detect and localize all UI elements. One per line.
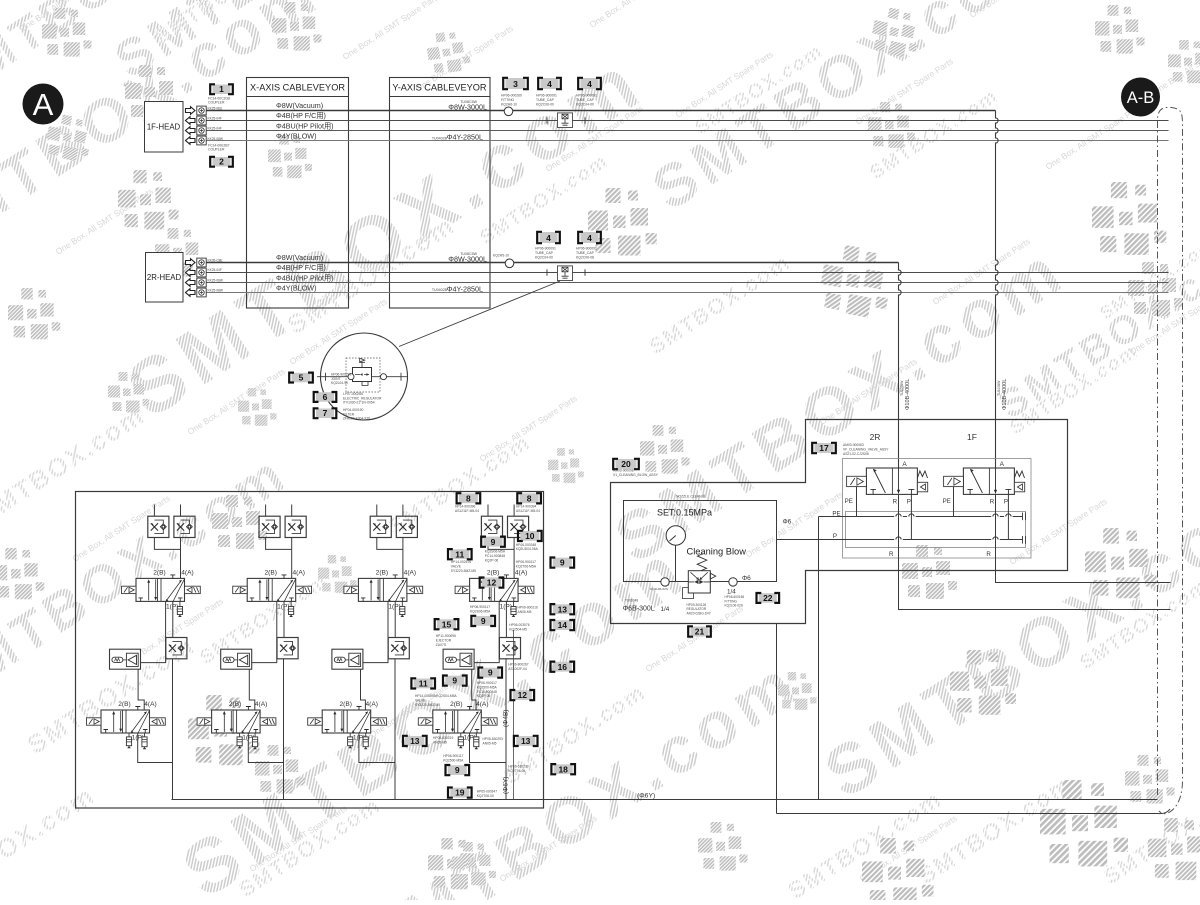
group 1 P line down <box>172 601 174 637</box>
svg-text:18: 18 <box>558 764 568 774</box>
svg-text:KK05-C8E: KK05-C8E <box>208 258 223 262</box>
svg-text:KK25-04F: KK25-04F <box>208 116 222 120</box>
svg-text:Φ8W-3000L: Φ8W-3000L <box>448 254 487 263</box>
svg-text:HP06-900117: HP06-900117 <box>477 681 497 685</box>
svg-text:KQ2H6-10: KQ2H6-10 <box>501 103 517 107</box>
svg-text:HP06-000348: HP06-000348 <box>516 543 537 547</box>
detail pointer line <box>399 281 560 347</box>
svg-text:4(A): 4(A) <box>476 701 488 708</box>
svg-text:HP11-900096: HP11-900096 <box>436 634 456 638</box>
tag [9] <box>478 668 502 678</box>
svg-text:14: 14 <box>558 620 568 630</box>
group 3 lower outlet wire <box>359 733 395 763</box>
flow control FC4b <box>508 516 529 537</box>
svg-text:1(P): 1(P) <box>277 603 289 610</box>
wire vertical 1F drop phi10B-4000L <box>996 111 999 469</box>
svg-text:KQ2500-M5A: KQ2500-M5A <box>477 685 498 689</box>
svg-text:Φ10B-4000L: Φ10B-4000L <box>1002 379 1008 410</box>
svg-text:Φ8W-3000L: Φ8W-3000L <box>448 102 487 111</box>
svg-text:KK25-0EE: KK25-0EE <box>208 106 223 110</box>
svg-text:KQ2C04-00: KQ2C04-00 <box>576 103 594 107</box>
svg-text:Φ8W(Vacuum): Φ8W(Vacuum) <box>276 253 323 262</box>
svg-text:KQ2S06-M5A: KQ2S06-M5A <box>470 609 491 613</box>
wire P drop 2R <box>910 494 912 539</box>
svg-text:Cleaning Blow: Cleaning Blow <box>687 547 747 557</box>
wire 1F phi4BU line <box>206 130 1169 132</box>
group 4 upper muffler <box>513 601 515 606</box>
valve upper V1 <box>122 575 201 602</box>
flow control FC3a <box>370 516 391 537</box>
group 1 FC to valve wires <box>154 538 180 579</box>
svg-text:KQ2500-M5A: KQ2500-M5A <box>443 758 464 762</box>
label phi10B-4000L left <box>900 379 911 410</box>
group 2 ejector outlet wire <box>249 669 255 710</box>
detail bubble circle <box>321 333 408 420</box>
wire phi6Y bottom <box>544 799 1158 801</box>
manifold bottom bus <box>172 799 544 801</box>
flow control FC2a <box>259 516 280 537</box>
fitting circle on 1F vacuum line <box>504 107 513 116</box>
tag [18] <box>551 764 575 774</box>
svg-text:4(A): 4(A) <box>292 570 304 577</box>
svg-text:16: 16 <box>558 662 568 672</box>
wire PE drop 2R <box>856 487 858 517</box>
svg-text:KQ2504-M5: KQ2504-M5 <box>509 627 527 631</box>
coupler labels 1F <box>208 97 230 105</box>
svg-text:SY3220-5MZ-M5: SY3220-5MZ-M5 <box>451 569 476 573</box>
svg-text:R: R <box>986 551 991 558</box>
group 3 P line down <box>394 601 396 637</box>
svg-text:HP06-630230: HP06-630230 <box>508 765 529 769</box>
fitting circle right <box>729 578 737 586</box>
svg-text:P: P <box>907 499 911 506</box>
wire 1F phi4Y line <box>206 140 1169 142</box>
svg-text:HP14-900396: HP14-900396 <box>455 505 476 509</box>
group 3 FC stems <box>377 505 403 517</box>
group 3 lower mufflers <box>349 733 351 737</box>
group 4 FC stems <box>488 505 514 517</box>
svg-text:HP06-900091: HP06-900091 <box>576 94 597 98</box>
svg-text:KQ2P-06: KQ2P-06 <box>477 694 491 698</box>
tag [1] <box>210 84 233 94</box>
svg-text:FC14-900848: FC14-900848 <box>477 690 497 694</box>
svg-text:2R: 2R <box>870 432 881 442</box>
svg-text:P: P <box>833 533 837 540</box>
group 1 upper muffler <box>179 601 181 606</box>
svg-text:HP65-000347: HP65-000347 <box>477 790 498 794</box>
flow control FC2b <box>285 516 306 537</box>
group 2 lower outlet wire <box>248 733 283 763</box>
tag [12] <box>511 690 535 700</box>
svg-text:AR20-02BG-1RY: AR20-02BG-1RY <box>687 611 712 615</box>
group 4 vacuum jog wire <box>474 601 499 662</box>
tag [11] <box>448 549 472 559</box>
PE bus wire <box>819 516 1024 518</box>
svg-text:HP06-900091: HP06-900091 <box>576 247 597 251</box>
label phi6Y rotated <box>503 777 510 794</box>
wire 1F R outlet to A-B <box>996 558 1171 583</box>
svg-text:KK25-04F: KK25-04F <box>208 127 222 131</box>
cleaning valve assembly outer box <box>611 420 1068 624</box>
svg-text:2(B): 2(B) <box>339 701 351 708</box>
svg-text:HP05-630293: HP05-630293 <box>483 737 504 741</box>
svg-text:2(B): 2(B) <box>229 701 241 708</box>
svg-text:1(P): 1(P) <box>166 603 178 610</box>
svg-text:4(A): 4(A) <box>365 701 377 708</box>
tag [14] <box>551 620 575 630</box>
tube cap on 1F phi4B line <box>547 117 585 123</box>
svg-text:4: 4 <box>587 79 592 89</box>
wire PE drop 1F <box>953 487 955 517</box>
svg-text:9: 9 <box>488 668 493 678</box>
wire vertical 2R drop phi10B-4000L <box>899 263 902 469</box>
ejector EJ3 <box>332 649 363 669</box>
flow control FC1b <box>174 516 195 537</box>
2R fitting circle and label <box>493 254 509 258</box>
svg-text:ZU07S: ZU07S <box>436 643 447 647</box>
valve upper V2 <box>233 575 312 602</box>
group 1 lower mufflers <box>128 733 130 737</box>
group 1 ejector outlet wire <box>138 669 144 710</box>
svg-text:1F-HEAD: 1F-HEAD <box>147 123 181 132</box>
svg-text:2R-HEAD: 2R-HEAD <box>147 273 182 282</box>
svg-text:TUBE_CAP: TUBE_CAP <box>576 251 595 255</box>
svg-text:TU06048: TU06048 <box>625 599 638 603</box>
svg-text:AS21-02-CJ2S06: AS21-02-CJ2S06 <box>843 452 869 456</box>
wire bottom second line <box>777 809 1171 814</box>
svg-text:Φ4B(HP F/C用): Φ4B(HP F/C用) <box>276 263 326 272</box>
svg-text:4: 4 <box>547 79 552 89</box>
svg-text:1/4: 1/4 <box>661 606 670 613</box>
svg-text:P: P <box>1004 499 1008 506</box>
tag [4] <box>578 78 601 89</box>
svg-text:AS1002F-04: AS1002F-04 <box>508 667 527 671</box>
svg-text:12: 12 <box>487 578 497 588</box>
group 2 FC to valve wires <box>266 538 292 579</box>
nozzle clean inner box <box>624 501 777 582</box>
svg-text:FITTING: FITTING <box>501 98 515 102</box>
svg-text:AS1211F-M5-04: AS1211F-M5-04 <box>455 509 479 513</box>
tag [8] <box>457 493 481 503</box>
svg-text:12: 12 <box>518 690 528 700</box>
wire 1F vacuum line phi8W <box>206 110 996 112</box>
tag [9] <box>443 676 467 686</box>
svg-text:11: 11 <box>419 679 428 689</box>
valve manifold outer box <box>76 492 544 809</box>
tube cap on 2R phi4B line <box>547 269 585 275</box>
valve lower VL2 <box>197 707 276 734</box>
2R tube labels Y box <box>460 252 477 256</box>
svg-text:15: 15 <box>442 619 452 629</box>
group 2 P line to bus <box>283 659 285 800</box>
group 3 ejector outlet wire <box>361 669 366 710</box>
1F head connectors <box>186 106 207 115</box>
svg-text:22: 22 <box>763 593 773 603</box>
svg-text:VALVE: VALVE <box>451 564 462 568</box>
wire 2R phi4BU line <box>206 282 1169 284</box>
svg-text:TU0402B: TU0402B <box>432 136 448 140</box>
group 2 upper muffler <box>290 601 292 606</box>
svg-text:HP06-800267: HP06-800267 <box>508 663 529 667</box>
flow control FC3b <box>396 516 417 537</box>
svg-text:9: 9 <box>452 676 457 686</box>
svg-text:TUBE_CAP: TUBE_CAP <box>535 251 554 255</box>
svg-text:Φ4Y(BLOW): Φ4Y(BLOW) <box>276 132 316 141</box>
group 2 vacuum jog wire <box>252 601 277 662</box>
group 4 P line to bus <box>505 659 507 800</box>
svg-text:1: 1 <box>219 84 224 94</box>
svg-text:HP06-900091: HP06-900091 <box>535 247 556 251</box>
tag [22] <box>757 593 780 603</box>
wire P drop 1F <box>1007 494 1009 539</box>
svg-text:PE: PE <box>845 498 853 505</box>
svg-text:COUPLER: COUPLER <box>208 148 225 152</box>
ejector EJ2 <box>221 649 252 669</box>
svg-text:PC14-900848: PC14-900848 <box>485 554 506 558</box>
group 4 P line down <box>505 601 507 637</box>
svg-text:TUBE_CAP: TUBE_CAP <box>576 98 595 102</box>
tag [2] <box>210 157 233 167</box>
svg-text:2(B): 2(B) <box>153 570 165 577</box>
svg-text:EJECTOR: EJECTOR <box>436 638 452 642</box>
svg-text:NOZZLE CLEAN用: NOZZLE CLEAN用 <box>676 495 705 499</box>
svg-text:HP06-900117: HP06-900117 <box>443 754 463 758</box>
svg-text:TU0402B: TU0402B <box>432 288 448 292</box>
A-B cable loop dash-dot <box>1158 107 1183 813</box>
tag [13] <box>514 736 538 746</box>
svg-text:1F: 1F <box>967 432 977 442</box>
svg-text:8: 8 <box>466 493 471 503</box>
svg-text:R: R <box>889 551 894 558</box>
svg-text:AM03-000098: AM03-000098 <box>613 469 634 473</box>
wire R drop 1F <box>995 494 997 558</box>
wire 2R phi4Y line <box>206 292 1169 294</box>
svg-text:2(B): 2(B) <box>376 570 388 577</box>
label phi10B-4000L right <box>997 379 1008 410</box>
svg-text:ITV1030-21*1N-X054: ITV1030-21*1N-X054 <box>343 401 375 405</box>
svg-text:KQ2L06-02S: KQ2L06-02S <box>650 587 668 591</box>
svg-text:Φ10B-4000L: Φ10B-4000L <box>905 379 911 410</box>
svg-text:Φ4Y(BLOW): Φ4Y(BLOW) <box>276 284 316 293</box>
svg-text:TU1008W: TU1008W <box>900 380 904 396</box>
flow control FC1a <box>148 516 169 537</box>
svg-text:HP06-003076: HP06-003076 <box>509 623 530 627</box>
svg-text:HP14-000976/KQ2S04-M5A: HP14-000976/KQ2S04-M5A <box>415 694 457 698</box>
svg-text:4(A): 4(A) <box>404 570 416 577</box>
tag [8] <box>517 493 541 503</box>
fitting circle left <box>661 578 669 586</box>
tag [4] <box>538 78 561 89</box>
regulator cleaning blow <box>683 554 716 599</box>
flow control below FC3c <box>388 638 409 659</box>
tag [19] <box>448 788 472 798</box>
svg-text:PE: PE <box>943 498 951 505</box>
svg-text:4: 4 <box>546 233 551 243</box>
detail bubble pipe <box>317 373 408 381</box>
svg-text:TU1008W: TU1008W <box>997 380 1001 396</box>
tag [4] <box>578 232 601 243</box>
svg-text:2(B): 2(B) <box>264 570 276 577</box>
svg-text:A-B: A-B <box>1127 89 1155 107</box>
svg-text:ZFA100-F304-X20: ZFA100-F304-X20 <box>343 417 370 421</box>
svg-text:4(A): 4(A) <box>144 701 156 708</box>
svg-text:KQ2C04-00: KQ2C04-00 <box>535 256 553 260</box>
svg-text:R: R <box>893 499 898 506</box>
flow control below FC2c <box>277 638 298 659</box>
tag [13] <box>403 736 427 746</box>
svg-text:KQ2H5-10: KQ2H5-10 <box>493 254 509 258</box>
svg-text:13: 13 <box>521 736 531 746</box>
svg-text:4(A): 4(A) <box>255 701 267 708</box>
svg-text:X-AXIS CABLEVEYOR: X-AXIS CABLEVEYOR <box>250 83 345 93</box>
valve 2R cleaning <box>847 468 928 494</box>
svg-text:KQ2UD04-06A: KQ2UD04-06A <box>516 547 539 551</box>
tag [16] <box>551 662 575 672</box>
tube label phi6B-300L <box>625 599 638 603</box>
svg-text:HP09-000216: HP09-000216 <box>518 606 539 610</box>
svg-text:A: A <box>33 87 54 122</box>
tag [13] <box>551 604 575 614</box>
manifold phi4B riser <box>513 630 515 800</box>
svg-text:SY3220-5MZ-M5: SY3220-5MZ-M5 <box>415 703 440 707</box>
svg-text:TUBE_CAP: TUBE_CAP <box>536 98 555 102</box>
svg-text:19: 19 <box>455 788 465 798</box>
flow control below FC4c <box>499 638 520 659</box>
svg-text:VALVE: VALVE <box>415 698 426 702</box>
group 2 FC stems <box>266 505 292 517</box>
svg-text:A: A <box>902 461 907 468</box>
svg-text:KK25-04F: KK25-04F <box>208 268 222 272</box>
tag [5] <box>289 373 313 383</box>
section marker A-B <box>1121 78 1160 117</box>
valve lower VL1 <box>87 707 166 734</box>
tag [9] <box>446 765 470 775</box>
svg-text:KK25-08W: KK25-08W <box>208 137 223 141</box>
group 4 lower outlet wire <box>470 733 507 763</box>
svg-text:Φ6B-300L: Φ6B-300L <box>623 606 655 613</box>
group 1 P line to bus <box>172 659 174 800</box>
ejector EJ1 <box>110 649 141 669</box>
svg-text:5: 5 <box>299 373 304 383</box>
svg-text:17: 17 <box>819 443 829 453</box>
svg-text:13: 13 <box>558 604 568 614</box>
svg-text:2(B): 2(B) <box>450 701 462 708</box>
1F-HEAD box <box>145 102 184 153</box>
tag [12] <box>480 578 504 588</box>
flow control FC4a <box>481 516 502 537</box>
svg-text:HP14-002676: HP14-002676 <box>451 560 472 564</box>
svg-text:13: 13 <box>410 736 420 746</box>
svg-text:Y-AXIS CABLEVEYOR: Y-AXIS CABLEVEYOR <box>392 83 486 93</box>
svg-text:PE: PE <box>832 511 840 518</box>
tag [7] <box>314 408 337 418</box>
Y-axis cableveyor box <box>390 78 491 309</box>
bus end ticks <box>1023 513 1026 544</box>
tag [4] <box>537 232 560 243</box>
svg-text:KQ2T08-00: KQ2T08-00 <box>477 794 494 798</box>
tag [10] <box>518 531 542 541</box>
tag [6] <box>314 392 337 402</box>
inner valve box <box>843 459 1032 559</box>
valve lower VL4 <box>418 707 497 734</box>
valve lower VL3 <box>308 707 387 734</box>
wire 2R vacuum line phi8W <box>206 262 899 264</box>
svg-text:A: A <box>1000 461 1005 468</box>
2R-HEAD box <box>146 253 184 303</box>
valve upper V4 <box>455 575 534 602</box>
2R head connectors <box>186 258 207 267</box>
group 4 lower mufflers <box>460 733 462 737</box>
svg-text:4(A): 4(A) <box>515 570 527 577</box>
group 2 P line down <box>283 601 285 637</box>
wire PE external drop <box>818 517 820 800</box>
group 1 vacuum jog wire <box>141 601 166 662</box>
label phi4B rotated <box>503 710 510 727</box>
svg-text:VF_CLEANING_VALVE_ASSY: VF_CLEANING_VALVE_ASSY <box>843 447 889 451</box>
svg-text:COUPLER: COUPLER <box>208 101 225 105</box>
svg-text:HP06-900091: HP06-900091 <box>536 94 557 98</box>
svg-text:Φ4BU(HP Pilot用): Φ4BU(HP Pilot用) <box>276 121 334 130</box>
bus sub-box <box>846 512 1026 548</box>
svg-text:7: 7 <box>323 408 328 418</box>
svg-text:AN05-M5: AN05-M5 <box>518 610 532 614</box>
svg-text:9: 9 <box>491 537 496 547</box>
svg-text:Φ4B(HP F/C用): Φ4B(HP F/C用) <box>276 111 326 120</box>
group 3 upper muffler <box>401 601 403 606</box>
svg-text:Φ4BU(HP Pilot用): Φ4BU(HP Pilot用) <box>276 273 334 282</box>
group 3 vacuum jog wire <box>363 601 388 662</box>
svg-text:2: 2 <box>219 157 224 167</box>
svg-text:KQ2P-06: KQ2P-06 <box>485 558 499 562</box>
group 1 FC stems <box>154 505 180 517</box>
svg-text:3: 3 <box>513 79 518 89</box>
svg-text:AN05-M5: AN05-M5 <box>483 741 497 745</box>
wire R drop 2R <box>898 494 900 558</box>
svg-text:9: 9 <box>455 765 460 775</box>
section marker A <box>23 84 64 125</box>
svg-text:KQ2T06-M5A: KQ2T06-M5A <box>516 564 537 568</box>
svg-text:Φ8W(Vacuum): Φ8W(Vacuum) <box>276 101 323 110</box>
group 2 lower mufflers <box>239 733 241 737</box>
wire cleaning box right edge drop <box>776 624 778 814</box>
svg-text:HP08-630219: HP08-630219 <box>433 736 454 740</box>
wire 2R phi4B line <box>206 272 1169 274</box>
tag [11] <box>411 678 435 688</box>
svg-text:2(B): 2(B) <box>487 570 499 577</box>
svg-text:11: 11 <box>455 549 464 559</box>
svg-text:HP06-900117: HP06-900117 <box>516 560 536 564</box>
svg-text:4: 4 <box>587 233 592 243</box>
svg-text:AN05-M5: AN05-M5 <box>433 740 447 744</box>
svg-text:Φ4Y-2850L: Φ4Y-2850L <box>447 133 483 142</box>
wire 2R R outlet to A-B <box>899 558 1171 610</box>
P bus wire <box>777 539 1024 541</box>
tag [15] <box>435 619 459 629</box>
svg-text:21: 21 <box>695 627 705 637</box>
svg-text:6: 6 <box>323 392 328 402</box>
manifold part number texts <box>455 505 479 513</box>
wire 1F phi4B line <box>206 120 1169 122</box>
tag [3] <box>503 78 528 89</box>
svg-text:KQ2C06-00: KQ2C06-00 <box>536 103 554 107</box>
svg-text:KK25-08W: KK25-08W <box>208 289 223 293</box>
svg-text:HP14-900394: HP14-900394 <box>516 505 537 509</box>
svg-text:9: 9 <box>560 558 565 568</box>
group 4 FC to valve wires <box>488 538 514 579</box>
group 3 P line to bus <box>394 659 396 800</box>
svg-text:Φ4Y-2850L: Φ4Y-2850L <box>447 285 483 294</box>
svg-text:HP06-900117: HP06-900117 <box>470 605 490 609</box>
